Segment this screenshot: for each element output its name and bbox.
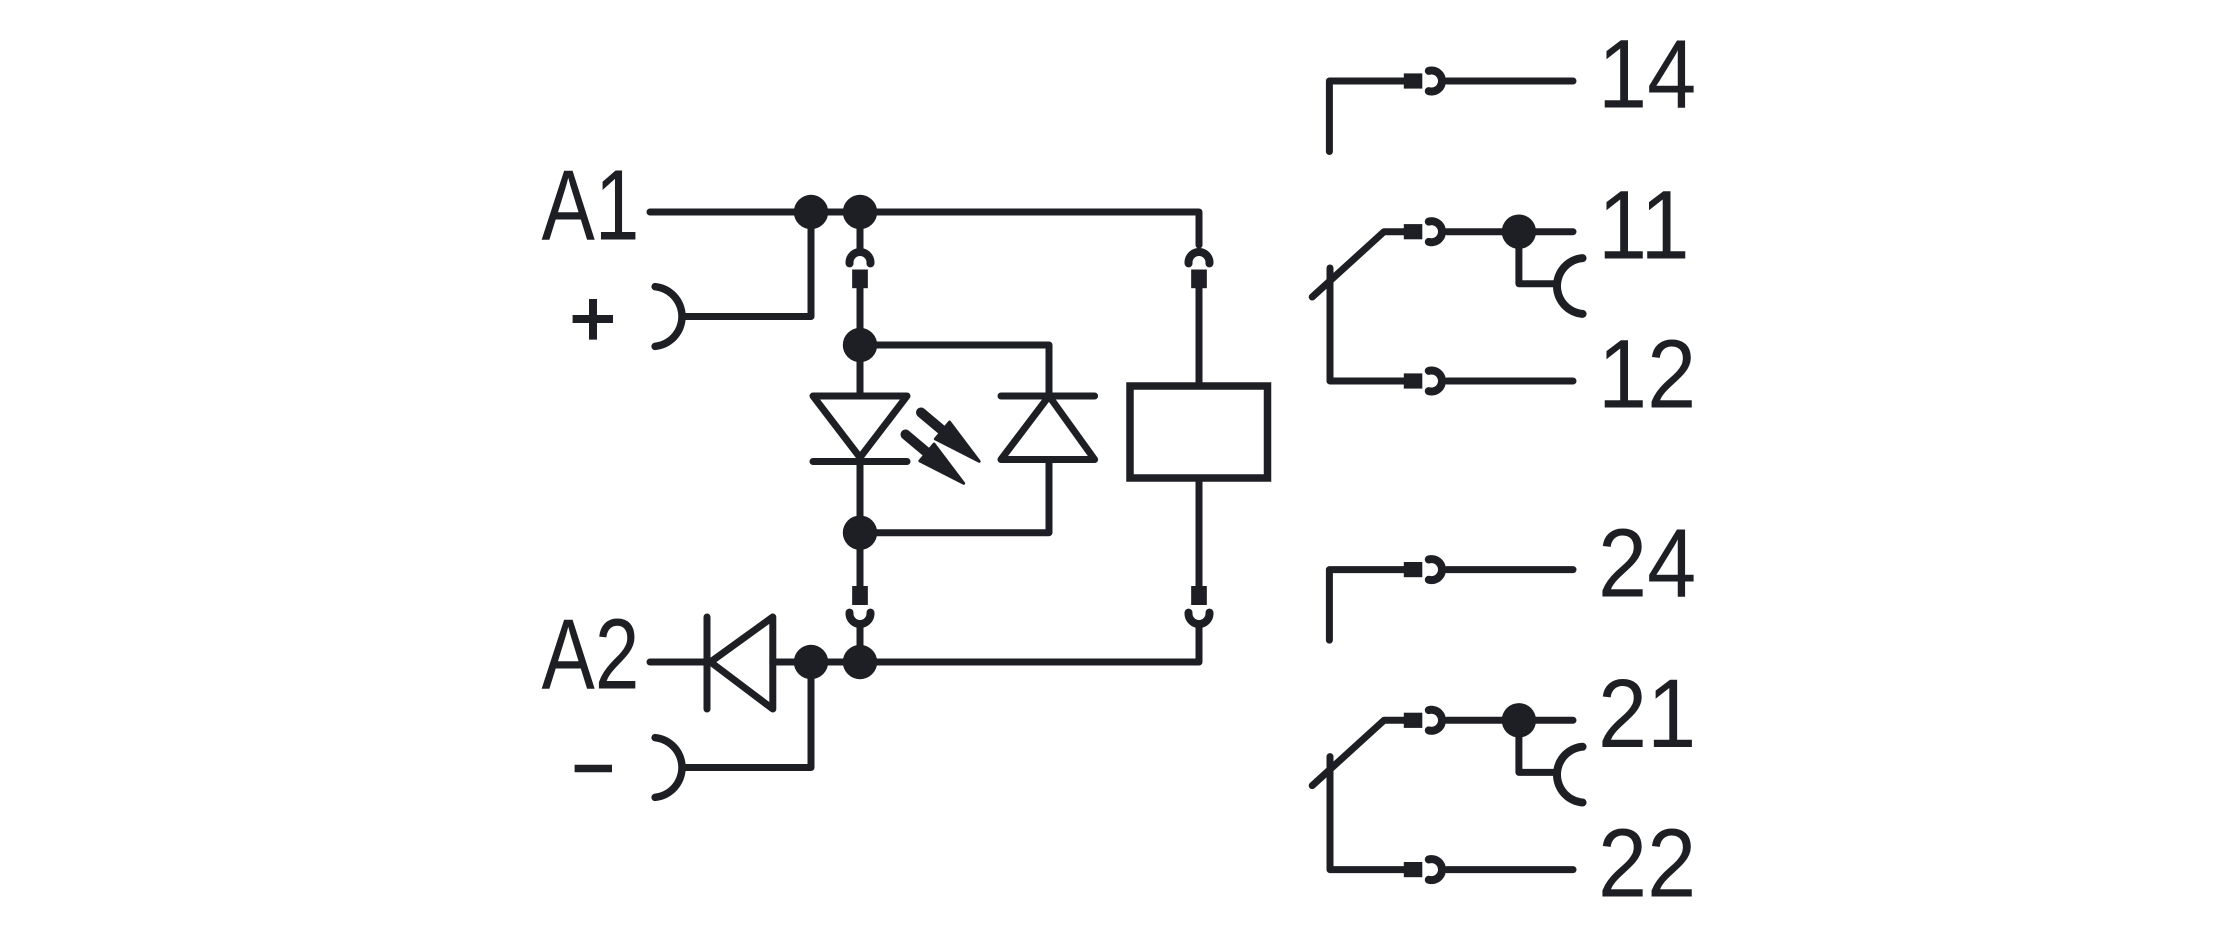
wire contact 12 branch (contact set 1): [1330, 268, 1404, 381]
LED emission arrow 2: [898, 426, 970, 492]
plug connector socket (contact 24): [1429, 559, 1442, 580]
diode D2 bar (suppressor): [1001, 393, 1095, 400]
wire contact 12: [1447, 378, 1573, 385]
diode D3 triangle: [711, 617, 773, 709]
wire contact 14 branch (contact set 1): [1329, 81, 1403, 152]
wire contact 14: [1447, 78, 1573, 85]
wire stub plug P2 to A2 node: [857, 624, 864, 662]
wire minus to A2 node: [683, 662, 811, 768]
plug connector P4 socket: [1189, 613, 1210, 624]
socket terminal plus: [655, 287, 682, 347]
moving-contact socket (21): [1557, 747, 1583, 803]
svg-text:11: 11: [1598, 171, 1690, 280]
wire parallel rail top: [860, 345, 1049, 396]
plug connector P2 socket: [850, 613, 871, 624]
diode D3 bar: [704, 617, 711, 709]
junction dot A1-b: [843, 195, 877, 229]
wire contact 21: [1447, 717, 1573, 724]
moving-contact socket (11): [1557, 258, 1583, 314]
junction dot contact 11: [1502, 215, 1536, 249]
wire plus to A1 node: [683, 212, 811, 317]
svg-text:24: 24: [1598, 508, 1696, 617]
junction dot LED top: [843, 328, 877, 362]
socket terminal minus: [655, 738, 682, 798]
junction dot A2-a: [794, 645, 828, 679]
junction dot A2-b: [843, 645, 877, 679]
plug connector pin (contact 12): [1404, 373, 1423, 388]
switch armature (contact set 1): [1312, 232, 1404, 297]
svg-text:12: 12: [1598, 320, 1696, 429]
plug connector P3 pin: [1191, 270, 1207, 289]
wire A2 to coil branch: [773, 625, 1199, 662]
junction dot contact 21: [1502, 703, 1536, 737]
svg-text:A2: A2: [542, 599, 640, 711]
switch armature (contact set 2): [1312, 720, 1404, 785]
plug connector pin (contact 21): [1404, 713, 1423, 728]
plug connector socket (contact 14): [1429, 71, 1442, 92]
wire contact 22 branch (contact set 2): [1330, 757, 1404, 870]
plug connector socket (contact 21): [1429, 710, 1442, 731]
plug connector socket (contact 12): [1429, 371, 1442, 392]
LED emission arrow 1: [914, 404, 986, 470]
junction dot A1-a: [794, 195, 828, 229]
LED D1 cathode bar: [813, 458, 907, 465]
LED D1 triangle: [813, 396, 907, 458]
wire LED anode: [857, 288, 864, 396]
wire A2 lead: [650, 659, 707, 666]
wire coil bottom: [1196, 482, 1203, 587]
wire contact 22: [1447, 866, 1573, 873]
plug connector pin (contact 22): [1404, 862, 1423, 877]
wire LED cathode: [857, 462, 864, 587]
plug connector pin (contact 11): [1404, 224, 1423, 239]
svg-text:21: 21: [1598, 659, 1696, 768]
plug connector socket (contact 22): [1429, 859, 1442, 880]
plug connector P1 socket (LED branch): [850, 252, 871, 263]
wire A1 lead to coil branch: [650, 212, 1199, 245]
plug connector socket (contact 11): [1429, 221, 1442, 242]
plug connector pin (contact 14): [1404, 73, 1423, 88]
plug connector P3 socket (coil top): [1189, 252, 1210, 263]
svg-text:14: 14: [1598, 20, 1696, 129]
plug connector P2 pin (A2 branch): [852, 586, 868, 605]
relay coil K1: [1130, 386, 1268, 478]
wire contact 24 branch (contact set 2): [1329, 570, 1403, 641]
minus sign: [575, 765, 612, 773]
plug connector P1 pin: [852, 270, 868, 289]
plus sign: [573, 315, 613, 323]
plug connector pin (contact 24): [1404, 562, 1423, 577]
wire stub A1-b to plug P1: [857, 212, 864, 248]
wire 21 to moving-contact socket: [1519, 720, 1555, 772]
wire 11 to moving-contact socket: [1519, 232, 1555, 284]
plug connector P4 pin (coil bottom): [1191, 586, 1207, 605]
svg-text:22: 22: [1598, 808, 1696, 917]
wire contact 11: [1447, 228, 1573, 235]
svg-text:A1: A1: [542, 150, 640, 262]
wire parallel rail bottom: [860, 460, 1049, 533]
wire contact 24: [1447, 566, 1573, 573]
wire coil top: [1196, 288, 1203, 382]
diode D2 triangle: [1001, 396, 1095, 460]
junction dot LED bottom: [843, 516, 877, 550]
